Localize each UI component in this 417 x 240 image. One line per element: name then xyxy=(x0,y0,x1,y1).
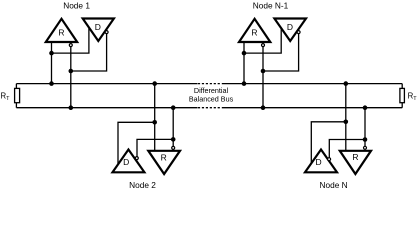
node 1: wire driver output B to node B junction xyxy=(71,34,107,72)
junction: node 2 B-wire tap xyxy=(171,137,176,142)
receiver R of node 1 xyxy=(46,19,77,42)
junction: node N on bus A xyxy=(344,81,349,86)
node 2: wire receiver input A to bus A xyxy=(154,84,156,151)
svg-text:D: D xyxy=(316,157,322,167)
inverting bubble: node N driver output B xyxy=(328,158,331,161)
svg-text:D: D xyxy=(95,22,101,32)
svg-text:Node 2: Node 2 xyxy=(129,180,156,190)
inverting bubble: node N-1 receiver input B xyxy=(262,44,265,47)
inverting bubble: node N receiver input B xyxy=(364,146,367,149)
driver D of node N-1 xyxy=(274,19,306,42)
junction: node 2 on bus B xyxy=(171,105,176,110)
junction: node N-1 on bus A xyxy=(242,81,247,86)
junction: node N-1 B-wire tap xyxy=(261,69,266,74)
junction: node N on bus B xyxy=(363,105,368,110)
node 1: wire driver output A to node A junction xyxy=(52,28,89,53)
node N-1: wire driver output A to node A junction xyxy=(244,28,281,53)
node 2: wire receiver input B to bus B xyxy=(172,108,174,147)
wire: bus line B (bottom), solid right segment xyxy=(222,107,402,109)
wire: bus line A (top), dashed continuation segment xyxy=(198,83,222,85)
inverting bubble: node 1 driver output B xyxy=(105,31,108,34)
junction: node 1 on bus B xyxy=(69,105,74,110)
node N-1: wire receiver input A to bus A xyxy=(243,42,245,84)
svg-text:Balanced Bus: Balanced Bus xyxy=(189,94,234,103)
receiver R of node N xyxy=(340,151,371,174)
svg-text:D: D xyxy=(123,157,129,167)
node 1: wire receiver input A to bus A xyxy=(51,42,53,84)
svg-text:Node N: Node N xyxy=(320,180,348,190)
node N: wire driver output A to node A junction xyxy=(311,122,346,165)
junction: node N-1 on bus B xyxy=(261,105,266,110)
junction: node 2 A-wire tap xyxy=(152,120,157,125)
node N-1: wire driver output B to node B junction xyxy=(263,34,299,72)
driver D of node N xyxy=(305,150,337,173)
junction: node N A-wire tap xyxy=(344,120,349,125)
junction: node 2 on bus A xyxy=(152,81,157,86)
wire: bus line A (top), solid right segment xyxy=(222,83,402,85)
resistor RT right xyxy=(400,88,405,102)
svg-text:R: R xyxy=(161,152,167,162)
svg-text:R: R xyxy=(58,28,64,38)
node N: wire receiver input A to bus A xyxy=(345,84,347,151)
junction: node N-1 A-wire tap xyxy=(242,51,247,56)
svg-text:Node 1: Node 1 xyxy=(63,1,90,11)
wire: left termination leads xyxy=(15,84,17,108)
node N-1: wire receiver input B to bus B xyxy=(262,47,264,108)
inverting bubble: node 2 driver output B xyxy=(135,157,138,160)
svg-text:Node N-1: Node N-1 xyxy=(253,1,289,11)
junction: node 1 B-wire tap xyxy=(69,69,74,74)
resistor RT left xyxy=(15,88,20,102)
receiver R of node 2 xyxy=(148,151,180,174)
svg-text:R: R xyxy=(352,152,358,162)
wire: bus line A (top), solid left segment xyxy=(16,83,197,85)
inverting bubble: node N-1 driver output B xyxy=(297,31,300,34)
junction: node 1 A-wire tap xyxy=(49,51,54,56)
junction: node 1 on bus A xyxy=(49,81,54,86)
svg-text:R: R xyxy=(251,28,257,38)
wire: bus line B (bottom), dashed continuation segment xyxy=(198,107,222,109)
node 1: wire receiver input B to bus B xyxy=(70,47,72,108)
svg-text:D: D xyxy=(287,22,293,32)
wire: right termination leads xyxy=(401,84,403,108)
inverting bubble: node 2 receiver input B xyxy=(172,146,175,149)
junction: node N B-wire tap xyxy=(363,137,368,142)
wire: bus line B (bottom), solid left segment xyxy=(16,107,197,109)
node 2: wire driver output A to node A junction xyxy=(118,122,155,164)
node 2: wire driver output B to node B junction xyxy=(137,139,173,156)
node N: wire driver output B to node B junction xyxy=(329,140,365,158)
driver D of node 1 xyxy=(83,19,114,42)
receiver R of node N-1 xyxy=(239,19,270,42)
node N: wire receiver input B to bus B xyxy=(364,108,366,147)
inverting bubble: node 1 receiver input B xyxy=(69,44,72,47)
driver D of node 2 xyxy=(113,150,145,173)
